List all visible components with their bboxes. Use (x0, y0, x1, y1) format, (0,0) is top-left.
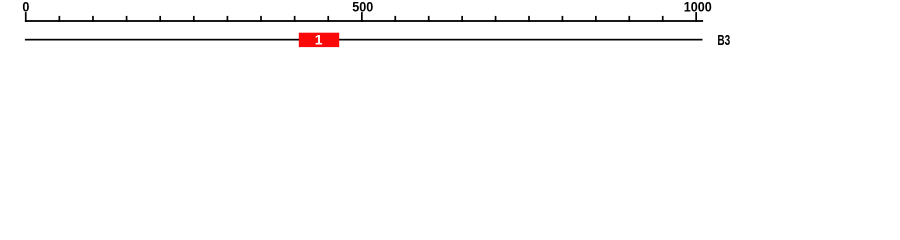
minor tick 750 (528, 16, 530, 22)
minor tick 100 (92, 16, 94, 22)
svg-text:B3: B3 (717, 31, 730, 49)
minor tick 600 (428, 16, 430, 22)
minor tick 850 (595, 16, 597, 22)
minor tick 950 (662, 16, 664, 22)
minor tick 550 (394, 16, 396, 22)
minor tick 650 (461, 16, 463, 22)
handle value label 1 (315, 31, 323, 47)
minor tick 300 (227, 16, 229, 22)
svg-text:1000: 1000 (684, 0, 712, 15)
minor tick 800 (562, 16, 564, 22)
minor tick 150 (126, 16, 128, 22)
major tick 0 (25, 12, 27, 22)
major tick 500 (361, 12, 363, 22)
svg-text:0: 0 (22, 0, 29, 15)
minor tick 900 (628, 16, 630, 22)
minor tick 50 (59, 16, 61, 22)
minor tick 250 (193, 16, 195, 22)
major tick 1000 (695, 12, 697, 22)
minor tick 700 (495, 16, 497, 22)
ruler axis line (25, 20, 703, 22)
slider handle (red box) (299, 33, 339, 47)
slider track line (25, 39, 703, 41)
minor tick 350 (260, 16, 262, 22)
minor tick 200 (159, 16, 161, 22)
svg-text:1: 1 (315, 31, 323, 47)
minor tick 400 (294, 16, 296, 22)
svg-text:500: 500 (352, 0, 373, 15)
minor tick 450 (327, 16, 329, 22)
